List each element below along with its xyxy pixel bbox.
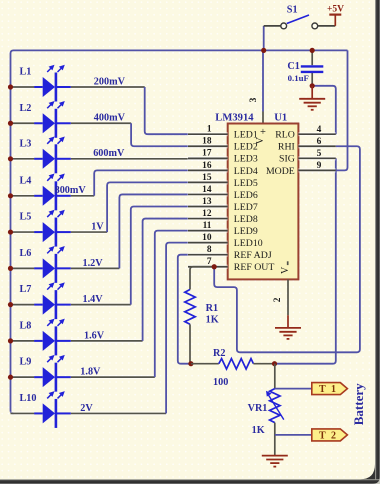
junction bus L5 bbox=[8, 229, 13, 234]
pin 14 stub (LED6) bbox=[188, 192, 228, 196]
pin 5 stub (SIG) bbox=[298, 156, 335, 160]
op-amp IC U1 LM3914 body bbox=[228, 124, 299, 280]
wire L5 to pin 15 bbox=[107, 182, 188, 232]
svg-text:12: 12 bbox=[202, 209, 212, 219]
wire C1 top stem bbox=[311, 50, 313, 65]
svg-text:L7: L7 bbox=[20, 284, 32, 295]
junction bus L2 bbox=[8, 121, 13, 126]
wire REF ADJ to R2 left junction bbox=[178, 255, 191, 364]
wire L8 cathode row bbox=[71, 339, 143, 343]
svg-text:6: 6 bbox=[317, 137, 322, 147]
wire L2 anode from bus bbox=[11, 121, 35, 125]
svg-text:16: 16 bbox=[202, 161, 212, 171]
wire S1 to +5V bbox=[318, 25, 336, 27]
svg-text:1V: 1V bbox=[91, 221, 104, 232]
resistor R2 100 bbox=[219, 359, 254, 369]
terminal T2 bbox=[312, 429, 348, 441]
junction C1/RLO/ground bbox=[310, 83, 315, 88]
junction R2/VR1/SIG/RHI bbox=[272, 361, 277, 366]
terminal T1 bbox=[312, 383, 348, 395]
wire VR1 bottom lead bbox=[274, 423, 276, 456]
svg-text:+5V: +5V bbox=[327, 4, 344, 14]
wire L1 cathode row bbox=[71, 85, 145, 89]
wire L1 to pin 1 bbox=[145, 87, 188, 134]
svg-text:MODE: MODE bbox=[266, 166, 295, 177]
wire L6 anode from bus bbox=[11, 266, 35, 270]
pin 10 stub (LED10) bbox=[188, 241, 228, 245]
power +5V symbol bbox=[329, 15, 341, 26]
wire L5 anode from bus bbox=[11, 230, 35, 234]
junction bus L6 bbox=[8, 266, 13, 271]
wire L4 cathode row bbox=[71, 194, 94, 198]
svg-text:L9: L9 bbox=[20, 357, 32, 368]
junction bus L4 bbox=[8, 193, 13, 198]
pin 7 stub (REF OUT) bbox=[188, 265, 228, 269]
LED L5 bbox=[34, 210, 71, 247]
svg-text:1.8V: 1.8V bbox=[80, 367, 101, 378]
svg-text:T 2: T 2 bbox=[319, 431, 338, 442]
wire L9 to pin 11 bbox=[155, 231, 188, 378]
svg-text:14: 14 bbox=[202, 185, 212, 195]
wire REF OUT elbow to R1 bbox=[190, 267, 214, 290]
svg-text:1.4V: 1.4V bbox=[83, 294, 104, 305]
svg-text:R1: R1 bbox=[206, 303, 218, 314]
photo frame shadow bottom bbox=[0, 479, 380, 484]
wire to terminal T1 bbox=[275, 388, 312, 390]
svg-text:1K: 1K bbox=[206, 314, 219, 325]
svg-text:L8: L8 bbox=[20, 320, 32, 331]
svg-text:RHI: RHI bbox=[278, 142, 295, 153]
junction R1/R2/REF-ADJ bbox=[188, 361, 193, 366]
photo frame shadow right bbox=[375, 0, 380, 484]
wire L6 to pin 14 bbox=[119, 194, 188, 268]
wire L2 to pin 18 bbox=[131, 123, 188, 146]
pin 18 stub (LED2) bbox=[188, 144, 228, 148]
svg-text:600mV: 600mV bbox=[93, 148, 125, 159]
pin 1 stub (LED1) bbox=[188, 132, 228, 136]
svg-text:T 1: T 1 bbox=[319, 384, 338, 395]
svg-text:10: 10 bbox=[202, 233, 212, 243]
svg-text:R2: R2 bbox=[213, 348, 225, 359]
svg-text:2V: 2V bbox=[80, 403, 93, 414]
svg-text:LM3914: LM3914 bbox=[215, 113, 254, 124]
pin 15 stub (LED5) bbox=[188, 180, 228, 184]
LED L10 bbox=[34, 391, 71, 428]
svg-text:L1: L1 bbox=[20, 67, 32, 78]
LED L2 bbox=[34, 101, 71, 138]
wire L9 cathode row bbox=[71, 375, 155, 379]
svg-text:L2: L2 bbox=[20, 103, 32, 114]
svg-text:SIG: SIG bbox=[279, 154, 295, 165]
ground below C1 bbox=[311, 86, 313, 99]
svg-text:Battery: Battery bbox=[351, 383, 366, 425]
svg-text:1K: 1K bbox=[252, 425, 265, 436]
potentiometer VR1 1K bbox=[266, 389, 284, 423]
wire MODE drop from rail bbox=[336, 50, 348, 170]
svg-text:2: 2 bbox=[273, 297, 283, 302]
svg-text:LED3: LED3 bbox=[234, 154, 258, 165]
svg-text:3: 3 bbox=[249, 97, 259, 102]
LED L9 bbox=[34, 355, 71, 392]
svg-text:200mV: 200mV bbox=[94, 76, 126, 87]
wire L7 anode from bus bbox=[11, 303, 35, 307]
wire L3 anode from bus bbox=[11, 157, 35, 161]
svg-text:9: 9 bbox=[317, 161, 322, 171]
wire L9 anode from bus bbox=[11, 375, 35, 379]
pin 17 stub (LED3) bbox=[188, 156, 228, 160]
pin 13 stub (LED7) bbox=[188, 204, 228, 208]
svg-text:LED7: LED7 bbox=[234, 202, 258, 213]
wire L8 anode from bus bbox=[11, 339, 35, 343]
svg-text:LED8: LED8 bbox=[234, 214, 258, 225]
pin 12 stub (LED8) bbox=[188, 216, 228, 220]
wire RHI to REF OUT path bbox=[214, 146, 360, 352]
svg-text:15: 15 bbox=[202, 173, 212, 183]
svg-text:L3: L3 bbox=[20, 138, 32, 149]
svg-text:7: 7 bbox=[207, 257, 212, 267]
pin 4 stub (RLO) bbox=[298, 132, 335, 136]
wire L6 cathode row bbox=[71, 266, 120, 270]
pin 11 stub (LED9) bbox=[188, 229, 228, 233]
svg-text:LED10: LED10 bbox=[234, 238, 263, 249]
switch S1 bbox=[281, 15, 318, 29]
resistor R1 1K (vertical) bbox=[185, 290, 195, 325]
junction bus L3 bbox=[8, 156, 13, 161]
wire SIG drop to battery junction bbox=[275, 158, 336, 363]
svg-text:L6: L6 bbox=[20, 248, 32, 259]
svg-text:V: V bbox=[280, 266, 291, 274]
svg-text:0.1uF: 0.1uF bbox=[288, 73, 309, 83]
ground below IC (V-) bbox=[287, 315, 289, 327]
svg-text:17: 17 bbox=[202, 149, 212, 159]
svg-text:VR1: VR1 bbox=[248, 403, 268, 414]
svg-text:U1: U1 bbox=[274, 113, 287, 124]
svg-text:18: 18 bbox=[202, 137, 212, 147]
wire L8 to pin 12 bbox=[143, 219, 188, 341]
pin name V- (rotated) bbox=[287, 261, 289, 265]
junction bus L7 bbox=[8, 302, 13, 307]
wire S1 branch vertical bbox=[263, 26, 265, 51]
svg-text:RLO: RLO bbox=[275, 130, 295, 141]
junction rail/C1 bbox=[310, 48, 315, 53]
pin 9 stub (MODE) bbox=[298, 168, 335, 172]
LED L6 bbox=[34, 246, 71, 283]
junction rail/S1 bbox=[261, 48, 266, 53]
svg-text:LED6: LED6 bbox=[234, 190, 258, 201]
junction bus L1 bbox=[8, 84, 13, 89]
LED L8 bbox=[34, 319, 71, 356]
junction REF OUT pin dot bbox=[212, 264, 217, 269]
wire L10 to pin 10 bbox=[166, 243, 188, 414]
svg-text:LED4: LED4 bbox=[234, 166, 258, 177]
wire RLO to C1-ground junction bbox=[312, 86, 336, 134]
svg-text:V: V bbox=[255, 136, 266, 144]
svg-text:1.6V: 1.6V bbox=[84, 330, 105, 341]
wire VR1 top lead bbox=[274, 364, 276, 389]
wire +5V rail from left bus to MODE drop bbox=[11, 50, 348, 87]
svg-text:C1: C1 bbox=[287, 61, 299, 72]
wire R1 bottom lead bbox=[189, 324, 191, 363]
svg-text:REF OUT: REF OUT bbox=[234, 262, 275, 273]
svg-text:REF ADJ: REF ADJ bbox=[234, 250, 272, 261]
wire L2 cathode row bbox=[71, 121, 131, 125]
wire L10 anode from bus bbox=[11, 411, 35, 415]
svg-text:5: 5 bbox=[317, 149, 322, 159]
svg-text:L4: L4 bbox=[20, 175, 32, 186]
svg-text:400mV: 400mV bbox=[94, 113, 126, 124]
pin 2 V- stem bbox=[287, 279, 289, 315]
capacitor C1 bbox=[301, 66, 324, 72]
LED L1 bbox=[34, 65, 71, 102]
wire L1 anode from bus bbox=[11, 85, 35, 89]
svg-text:13: 13 bbox=[202, 197, 212, 207]
wire L4 to pin 16 bbox=[94, 170, 188, 195]
pin 8 stub (REF ADJ) bbox=[188, 253, 228, 257]
wire left LED bus vertical bbox=[11, 87, 14, 413]
wire to switch S1 bbox=[264, 25, 281, 27]
LED L7 bbox=[34, 282, 71, 319]
svg-text:S1: S1 bbox=[287, 5, 298, 16]
wire to terminal T2 bbox=[275, 434, 312, 436]
pin 6 stub (RHI) bbox=[298, 144, 335, 148]
svg-text:+: + bbox=[260, 127, 266, 138]
wire L10 cathode row bbox=[71, 411, 166, 415]
wire C1 bottom stem to ground junction bbox=[311, 73, 313, 86]
wire R2 left lead bbox=[191, 363, 219, 365]
svg-text:4: 4 bbox=[317, 125, 322, 135]
svg-text:1.2V: 1.2V bbox=[83, 258, 104, 269]
svg-text:LED9: LED9 bbox=[234, 226, 258, 237]
LED L3 bbox=[34, 137, 71, 174]
wire L7 to pin 13 bbox=[131, 207, 188, 305]
svg-text:1: 1 bbox=[207, 125, 212, 135]
wire L7 cathode row bbox=[71, 303, 131, 307]
svg-text:L10: L10 bbox=[20, 393, 37, 404]
ground below VR1 bbox=[262, 456, 288, 467]
pin 16 stub (LED4) bbox=[188, 168, 228, 172]
wire L5 cathode row bbox=[71, 230, 107, 234]
svg-text:11: 11 bbox=[203, 221, 212, 231]
svg-text:100: 100 bbox=[213, 377, 228, 388]
svg-text:LED5: LED5 bbox=[234, 178, 258, 189]
junction bus L9 bbox=[8, 375, 13, 380]
svg-text:800mV: 800mV bbox=[55, 185, 87, 196]
wire V+ pin 3 stem bbox=[262, 50, 264, 111]
wire L4 anode from bus bbox=[11, 194, 35, 198]
junction bus L8 bbox=[8, 338, 13, 343]
svg-text:8: 8 bbox=[207, 245, 212, 255]
wire R2 right lead bbox=[253, 363, 274, 365]
wire L3 cathode row bbox=[71, 157, 228, 161]
svg-text:L5: L5 bbox=[20, 212, 32, 223]
LED L4 bbox=[34, 174, 71, 211]
